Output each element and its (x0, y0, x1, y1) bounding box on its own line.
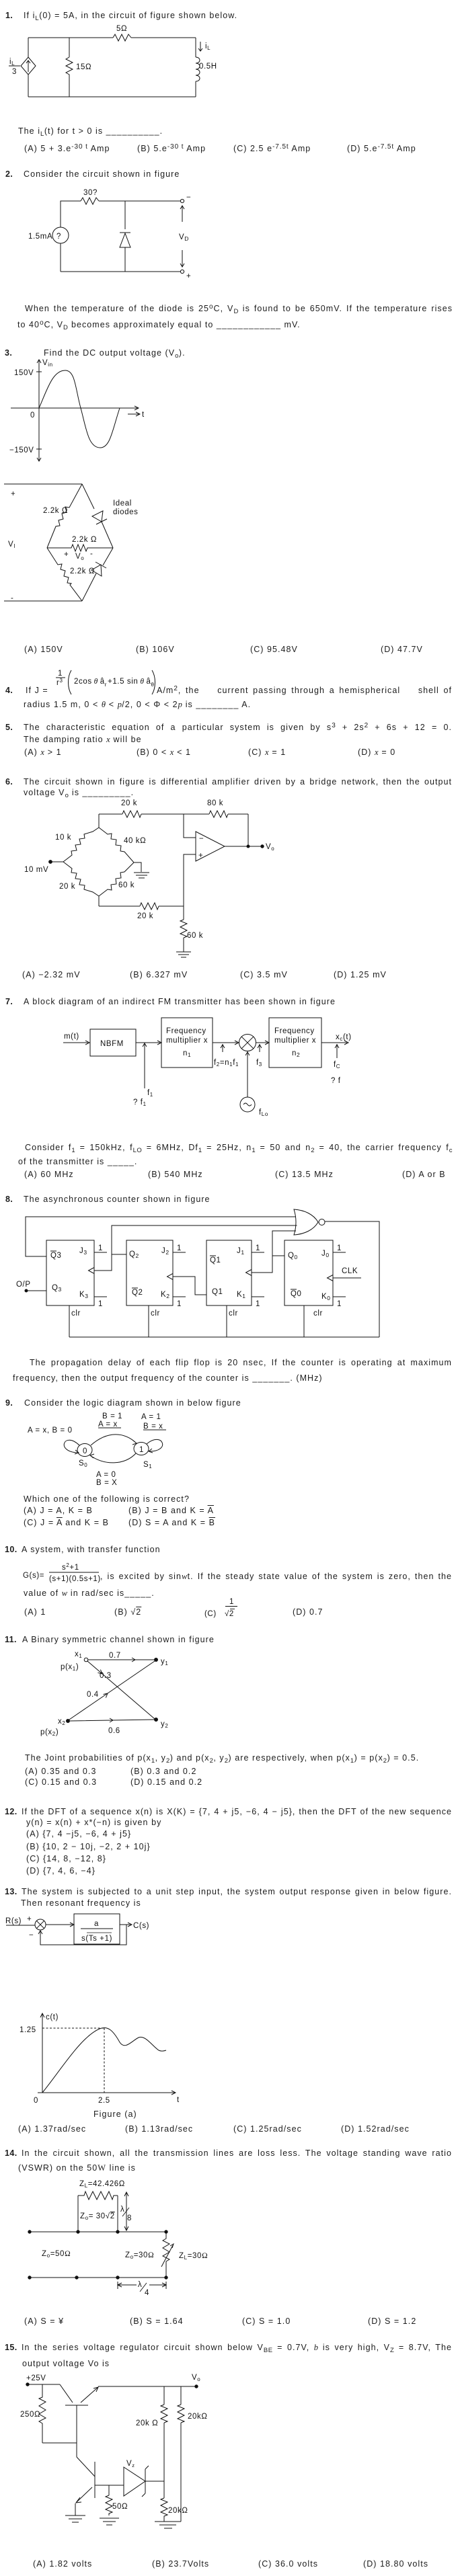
svg-text:0.6: 0.6 (108, 1727, 120, 1735)
svg-text:K0: K0 (321, 1293, 331, 1301)
wire sum to block (46, 1923, 74, 1927)
arrow f3 tap (258, 1044, 262, 1052)
svg-text:Q0: Q0 (291, 1290, 302, 1298)
svg-text:n2: n2 (292, 1049, 300, 1058)
svg-text:Zo=50Ω: Zo=50Ω (42, 2250, 71, 2259)
wire Q0 tap (272, 1255, 284, 1256)
wire Q1 base (76, 2405, 77, 2457)
svg-text:Q3: Q3 (50, 1252, 62, 1260)
Q10 text (5, 1545, 17, 1555)
op-amp (196, 832, 225, 861)
resistor 20k bottom (140, 903, 159, 910)
svg-text:√2: √2 (225, 1609, 234, 1618)
line x1-y2 (87, 1661, 155, 1719)
svg-text:CLK: CLK (342, 1267, 358, 1275)
svg-text:-: - (11, 594, 13, 602)
node y2 (155, 1718, 158, 1722)
wire noninverting input (184, 854, 196, 906)
svg-text:0.4: 0.4 (87, 1691, 99, 1699)
svg-text:S1: S1 (143, 1461, 152, 1470)
svg-text:2.2k Ω: 2.2k Ω (70, 567, 95, 575)
ground op-amp (176, 952, 191, 957)
svg-text:80 k: 80 k (207, 799, 223, 807)
wire top rail (99, 814, 248, 828)
J input stub 1 (173, 1252, 186, 1253)
block NBFM (90, 1029, 136, 1056)
wire Q2 tap (112, 1254, 126, 1255)
axis horizontal t (11, 406, 139, 410)
svg-text:−: − (186, 194, 191, 202)
svg-text:f2=n1f1: f2=n1f1 (214, 1059, 239, 1068)
resistor 20k top (122, 811, 141, 817)
bridge: resistor 10k (63, 828, 99, 862)
svg-text:t: t (177, 2096, 180, 2104)
Q6 text (5, 777, 13, 787)
resistor 2.2k middle (47, 545, 113, 551)
stub right wire (117, 2196, 118, 2232)
dashed 1.25 level (42, 2027, 104, 2029)
terminal top (minus) (180, 199, 184, 202)
svg-text:1: 1 (177, 1244, 182, 1252)
wire clr drop (303, 1305, 305, 1337)
dimension lambda/4 (118, 2282, 166, 2289)
svg-text:20kΩ: 20kΩ (168, 2507, 188, 2515)
svg-text:1: 1 (98, 1300, 103, 1308)
wire bottom (-) (4, 600, 82, 602)
svg-text:-: - (90, 550, 93, 558)
svg-text:C(s): C(s) (133, 1922, 149, 1930)
wire NOR input 1 from Q3bar (26, 1217, 296, 1256)
wire O/P (27, 1290, 46, 1291)
svg-text:p(x1): p(x1) (61, 1663, 79, 1672)
sine wave (39, 370, 120, 448)
ground bottom right (155, 2522, 181, 2528)
arrow f2 tap (221, 1044, 225, 1052)
bridge: resistor 40k (99, 828, 134, 862)
svg-text:multiplier x: multiplier x (166, 1037, 208, 1045)
svg-text:ZL=30Ω: ZL=30Ω (179, 2252, 208, 2261)
svg-text:B = x: B = x (143, 1422, 163, 1431)
overline Q1bar (210, 1255, 216, 1256)
Q13 text (5, 1887, 17, 1897)
K input stub 1 (252, 1296, 264, 1297)
arc 1 to 0 bottom (90, 1453, 136, 1463)
line x2-y1 (69, 1661, 155, 1720)
svg-text:2cos θ âr: 2cos θ âr (74, 678, 107, 688)
svg-text:VD: VD (179, 233, 189, 242)
Q5 text (5, 723, 13, 733)
wire NBFM to mult1 (136, 1041, 161, 1045)
svg-text:A = x: A = x (98, 1420, 118, 1428)
block a/s(Ts+1) (74, 1914, 120, 1944)
svg-text:1: 1 (256, 1300, 260, 1308)
resistor 2.2k bottom-left (47, 548, 82, 601)
svg-text:20 k: 20 k (137, 912, 153, 920)
wire bottom (28, 96, 196, 97)
oscillator circle (240, 1097, 255, 1112)
clock arrowhead ff2 (167, 1274, 174, 1280)
node Vo terminal (261, 845, 264, 848)
main line bottom (30, 2277, 166, 2278)
svg-text:Q2: Q2 (129, 1250, 139, 1259)
resistor 20k left (161, 2405, 167, 2423)
svg-text:y2: y2 (161, 1720, 168, 1729)
clock arrowhead ff1 (89, 1268, 95, 1274)
wire ground branch (134, 862, 141, 872)
arrow down (180, 250, 184, 267)
terminal bottom (plus) (180, 270, 184, 273)
overline Q2bar (132, 1287, 138, 1289)
node bottom-right (165, 2276, 167, 2279)
wire NOR input 2 from Q2 (94, 1225, 297, 1271)
svg-text:8: 8 (127, 2214, 132, 2222)
Q15 text (5, 2343, 17, 2353)
svg-text:20k Ω: 20k Ω (136, 2419, 158, 2427)
svg-text:multiplier x: multiplier x (274, 1037, 316, 1045)
wire top-right segment (131, 37, 196, 38)
svg-text:60 k: 60 k (187, 932, 203, 940)
svg-text:+1.5 sin θ âθ: +1.5 sin θ âθ (108, 678, 155, 688)
node top-left (28, 2230, 31, 2233)
wire clr drop (148, 1305, 149, 1337)
wire CLK input (333, 1277, 361, 1279)
wire right branch (195, 38, 196, 57)
svg-text:Q3: Q3 (52, 1284, 62, 1293)
state 1 circle (134, 1443, 149, 1455)
zener Vz (124, 2467, 145, 2496)
clock arrowhead ff4 (328, 1275, 334, 1281)
wire 20k right branch (180, 2386, 182, 2522)
svg-text:Vin: Vin (42, 359, 53, 368)
svg-text:20 k: 20 k (121, 799, 137, 807)
graph axis vertical (40, 2013, 44, 2093)
wire bottom (61, 271, 180, 272)
svg-text:150V: 150V (14, 369, 34, 377)
svg-text:iL: iL (205, 42, 211, 51)
wire left vertex (50, 861, 63, 862)
svg-text:1: 1 (58, 670, 63, 678)
ground Q2 (65, 2515, 85, 2522)
wire NOR input 3 from Q0 (252, 1231, 296, 1273)
svg-text:Zo=30Ω: Zo=30Ω (125, 2251, 154, 2260)
svg-text:−: − (199, 835, 204, 843)
svg-text:J3: J3 (79, 1247, 87, 1256)
arrow fc tap (335, 1044, 339, 1058)
svg-text:2.2k Ω: 2.2k Ω (43, 507, 68, 515)
arrow up (180, 206, 184, 222)
state 0 circle (77, 1444, 92, 1457)
wire Q2 base (95, 2485, 124, 2486)
wire mult1 to mixer (213, 1041, 239, 1045)
ground bridge (134, 873, 149, 878)
tick 150V (36, 371, 42, 372)
svg-text:G(s)=: G(s)= (23, 1572, 44, 1580)
resistor 30? (81, 198, 99, 204)
wire 20k left branch (163, 2386, 165, 2481)
K input stub 1 (94, 1296, 107, 1297)
svg-text:clr: clr (313, 1310, 323, 1318)
dashed vertical 2.5 (104, 2028, 105, 2093)
svg-text:x2: x2 (58, 1718, 65, 1726)
svg-text:c(t): c(t) (46, 2013, 59, 2021)
wire inverting input (184, 814, 196, 838)
wire top-left segment (28, 37, 113, 38)
Q7 text (5, 997, 13, 1007)
svg-text:4: 4 (145, 2289, 149, 2297)
svg-text:? f1: ? f1 (133, 1098, 147, 1107)
svg-text:VI: VI (8, 540, 15, 549)
node y1 (155, 1658, 158, 1662)
svg-text:(C): (C) (204, 1610, 217, 1618)
svg-text:Frequency: Frequency (166, 1027, 206, 1035)
resistor ZL=30 right (variable) (163, 2232, 169, 2278)
svg-text:0.3: 0.3 (100, 1672, 112, 1680)
Q12 text (5, 1807, 17, 1817)
svg-text:A = x, B = 0: A = x, B = 0 (28, 1426, 73, 1435)
main line top (30, 2231, 166, 2232)
svg-text:0: 0 (30, 411, 35, 419)
Q14 text (5, 2148, 17, 2159)
node feedback junction (247, 845, 250, 848)
current source 1.5mA (52, 227, 69, 243)
svg-text:fC: fC (334, 1061, 340, 1070)
svg-text:K3: K3 (79, 1291, 89, 1299)
svg-text:10 k: 10 k (55, 834, 71, 842)
svg-text:fLo: fLo (259, 1109, 268, 1117)
axis vertical Vin (37, 360, 41, 461)
node x1 (84, 1658, 88, 1662)
svg-text:Ideal: Ideal (113, 499, 132, 508)
svg-text:R(s): R(s) (5, 1917, 22, 1925)
diode (120, 232, 130, 233)
svg-text:1: 1 (337, 1300, 342, 1308)
wire left branch (28, 38, 29, 97)
Q3 text (5, 348, 12, 358)
svg-text:1: 1 (139, 1446, 144, 1454)
svg-text:Q1: Q1 (212, 1288, 223, 1296)
wire 20k bottom branch (163, 2481, 165, 2522)
resistor 250 (39, 2384, 46, 2443)
node +25V dot (26, 2383, 29, 2386)
mixer circle (239, 1035, 256, 1051)
flip-flop box 3 (126, 1240, 173, 1305)
flip-flop box 1 (284, 1240, 333, 1305)
svg-text:S0: S0 (79, 1459, 87, 1468)
svg-text:f1: f1 (147, 1089, 153, 1098)
svg-text:0: 0 (83, 1447, 87, 1455)
svg-text:Q2: Q2 (132, 1289, 143, 1297)
graph axis horizontal (38, 2091, 176, 2095)
svg-text:1: 1 (177, 1300, 182, 1308)
resistor 20k bottom (161, 2498, 167, 2518)
svg-text:x1: x1 (75, 1650, 82, 1659)
svg-text:A = 1: A = 1 (141, 1413, 161, 1421)
wire left branch top (61, 201, 81, 227)
open paren (69, 670, 72, 694)
block frequency multiplier n1 (161, 1018, 213, 1068)
summing junction (35, 1919, 46, 1930)
line x2-y2 (70, 1718, 154, 1722)
self loop state 1 (147, 1439, 163, 1453)
svg-text:0.5H: 0.5H (199, 63, 217, 71)
svg-text:?: ? (56, 233, 61, 241)
wire clr drop (69, 1305, 70, 1337)
close paren (152, 670, 155, 694)
svg-text:NBFM: NBFM (100, 1040, 124, 1048)
stub left wire (77, 2196, 79, 2232)
svg-text:B = 1: B = 1 (102, 1412, 122, 1420)
K input stub 1 (333, 1296, 346, 1297)
wire output rail (98, 2386, 196, 2387)
svg-text:3: 3 (12, 68, 17, 76)
svg-text:0.7: 0.7 (109, 1652, 121, 1660)
resistor 2.2k top-left (47, 484, 82, 548)
wire clr rail bottom (69, 1336, 379, 1338)
svg-text:clr: clr (151, 1310, 160, 1318)
svg-text:20kΩ: 20kΩ (188, 2413, 208, 2421)
wire f1 tap (143, 1043, 147, 1088)
diode branch wire (124, 201, 126, 272)
svg-text:clr: clr (71, 1310, 81, 1318)
wire clr drop (226, 1305, 227, 1337)
svg-text:B = X: B = X (96, 1479, 117, 1487)
dimension lambda/8 arrow (124, 2192, 128, 2230)
Q8 text (5, 1195, 13, 1205)
svg-text:J0: J0 (321, 1250, 330, 1258)
svg-text:n1: n1 (183, 1049, 191, 1058)
current source iL/3 (21, 57, 36, 75)
node top-right (165, 2230, 167, 2233)
NOR gate (294, 1209, 318, 1235)
svg-text:λ: λ (138, 2281, 142, 2289)
wire R(s) input (6, 1925, 35, 1926)
J input stub 1 (252, 1252, 264, 1253)
svg-text:−150V: −150V (9, 446, 34, 454)
svg-text:20 k: 20 k (59, 883, 75, 891)
block frequency multiplier n2 (269, 1018, 321, 1068)
wire top to terminal (99, 200, 180, 202)
svg-text:40 kΩ: 40 kΩ (124, 837, 146, 845)
Q9 text (5, 1398, 13, 1408)
svg-text:ZL=42.426Ω: ZL=42.426Ω (79, 2180, 125, 2189)
svg-text:250Ω: 250Ω (20, 2411, 40, 2419)
svg-text:xc(t): xc(t) (336, 1033, 352, 1042)
svg-text:+: + (64, 551, 69, 559)
svg-text:15Ω: 15Ω (76, 63, 91, 71)
wire m(t) input (63, 1041, 89, 1045)
wire left branch bottom (60, 243, 61, 272)
svg-text:K2: K2 (161, 1291, 170, 1299)
fraction bar in block (81, 1928, 113, 1929)
flip-flop box 4 (46, 1240, 94, 1305)
wire 50ohm branch (108, 2485, 110, 2495)
svg-text:10 mV: 10 mV (24, 866, 48, 874)
J input stub 1 (333, 1252, 346, 1253)
arc 0 to 1 top (91, 1435, 137, 1445)
K input stub 1 (173, 1296, 186, 1297)
svg-text:Vo: Vo (75, 553, 84, 561)
clock arrowhead ff3 (246, 1270, 252, 1276)
diode bottom-right (ideal) (96, 548, 113, 568)
svg-text:−: − (29, 1931, 34, 1939)
svg-text:1: 1 (98, 1244, 103, 1252)
wire 250 to base (42, 2442, 77, 2444)
svg-text:30?: 30? (83, 189, 98, 197)
current arrow iL (198, 42, 202, 51)
resistor 60k vertical (180, 920, 187, 938)
diode top-right (ideal) (82, 484, 94, 509)
wire +25V rail (28, 2384, 60, 2385)
svg-text:y1: y1 (161, 1658, 168, 1666)
Q11 text (5, 1635, 17, 1645)
node bottom 2 (75, 2276, 78, 2279)
resistor 80k top (209, 811, 228, 817)
inductor 0.5H (196, 57, 200, 81)
resistor 5ohm (113, 34, 131, 41)
svg-text:a: a (94, 1920, 99, 1928)
bridge: resistor 20k bottom-left (63, 862, 99, 896)
svg-text:Vz: Vz (126, 2460, 135, 2468)
flip-flop box 2 (206, 1240, 252, 1305)
svg-text:Frequency: Frequency (274, 1027, 315, 1035)
wire zener to node A (145, 2481, 164, 2482)
svg-text:J2: J2 (161, 1247, 169, 1256)
Q4 text (5, 686, 13, 696)
wire mixer to mult2 (256, 1041, 270, 1045)
svg-text:f3: f3 (256, 1059, 262, 1068)
svg-text:1: 1 (337, 1244, 342, 1252)
svg-text:+: + (186, 272, 191, 280)
svg-text:1.25: 1.25 (20, 2026, 36, 2034)
svg-text:p(x2): p(x2) (40, 1728, 59, 1737)
resistor 20k right (178, 2405, 184, 2423)
wire right-bottom (195, 81, 196, 97)
wire feedback (247, 814, 249, 846)
svg-text:Q0: Q0 (288, 1252, 298, 1260)
overline Q3bar (50, 1250, 56, 1252)
wire oscillator to mixer (245, 1051, 250, 1097)
svg-text:+: + (198, 852, 203, 860)
line x1-y1 (88, 1658, 154, 1662)
svg-text:λ: λ (120, 2206, 124, 2214)
transistor Q2 (77, 2457, 95, 2477)
wire output (225, 846, 262, 847)
resistor ZL=42.426 top (78, 2191, 118, 2200)
svg-text:s2+1: s2+1 (62, 1562, 79, 1572)
svg-text:5Ω: 5Ω (116, 25, 127, 33)
wire Q1 to ff2 clock (173, 1277, 206, 1295)
svg-text:+25V: +25V (26, 2374, 46, 2382)
svg-text:t: t (142, 411, 145, 419)
svg-text:Zo= 30√2: Zo= 30√2 (80, 2212, 115, 2221)
resistor 50 (106, 2495, 112, 2515)
svg-text:diodes: diodes (113, 508, 139, 516)
wire NOR output to clr rail (325, 1221, 379, 1337)
svg-text:J1: J1 (237, 1247, 245, 1256)
wire output C(s) (120, 1923, 132, 1927)
svg-text:K1: K1 (237, 1291, 246, 1299)
svg-text:1: 1 (256, 1244, 260, 1252)
svg-text:+: + (11, 490, 15, 498)
wire feedback (38, 1925, 126, 1945)
svg-text:A = 0: A = 0 (96, 1471, 116, 1479)
resistor 15ohm (66, 57, 73, 76)
wire top (+) (4, 483, 82, 485)
Q1 text (5, 11, 13, 21)
node x2 (67, 1720, 70, 1723)
svg-text:2.5: 2.5 (98, 2097, 110, 2105)
svg-text:O/P: O/P (16, 1281, 31, 1289)
